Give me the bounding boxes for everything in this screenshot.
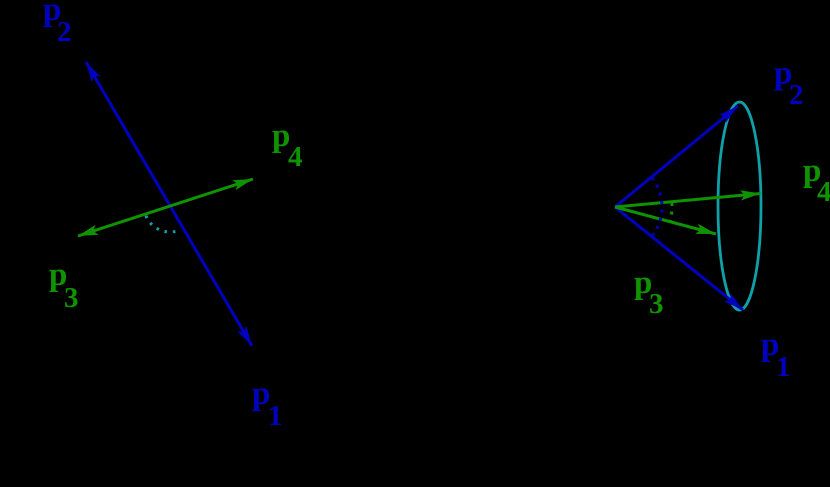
svg-text:4: 4 <box>288 141 303 173</box>
svg-text:1: 1 <box>776 351 791 383</box>
svg-text:3: 3 <box>64 282 79 314</box>
svg-text:2: 2 <box>57 16 72 48</box>
svg-text:4: 4 <box>817 176 830 208</box>
svg-text:3: 3 <box>649 288 664 320</box>
svg-text:2: 2 <box>789 79 804 111</box>
svg-text:1: 1 <box>268 400 283 432</box>
